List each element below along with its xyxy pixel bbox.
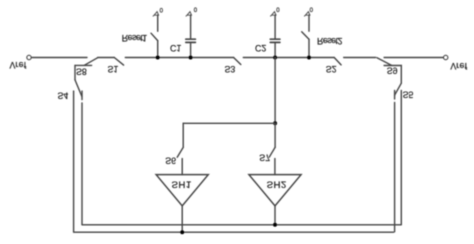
wire branch to S6 — [183, 122, 275, 124]
node junction SH2 output/inner rail — [273, 223, 277, 227]
svg-text:S2: S2 — [326, 64, 337, 74]
node junction SH1 output/outer rail — [180, 230, 184, 234]
switch S9 contact bar — [384, 65, 401, 67]
switch S8 blade — [85, 58, 98, 65]
ground for Reset2 — [304, 12, 310, 16]
node junction C2/wire — [273, 56, 277, 60]
svg-text:S6: S6 — [165, 155, 176, 165]
switch S6 blade — [177, 147, 183, 157]
capacitor C2 upper stub — [274, 15, 276, 39]
svg-text:Reset2: Reset2 — [317, 36, 342, 46]
switch S2 blade — [334, 58, 341, 65]
switch Reset1 upper stub — [157, 15, 159, 31]
wire Vref-L to S8 — [32, 57, 87, 59]
svg-text:0: 0 — [194, 6, 198, 12]
switch S6 lower stub — [181, 159, 183, 175]
node junction Reset2/wire — [307, 56, 311, 60]
switch S7 blade — [269, 147, 275, 157]
svg-text:S5: S5 — [403, 89, 414, 99]
node Vref left terminal — [27, 55, 31, 59]
wire SH2 output to inner rail — [274, 206, 276, 225]
wire SH2 feedback riser left (inner), with contact gap — [81, 91, 83, 224]
node branch junction — [273, 121, 277, 125]
svg-text:S3: S3 — [225, 64, 236, 74]
svg-text:S8: S8 — [76, 67, 87, 77]
svg-text:0: 0 — [310, 6, 314, 12]
wire SH1 feedback riser right (outer), with contact gap — [394, 91, 396, 232]
svg-text:C2: C2 — [255, 43, 266, 53]
switch S7 upper stub — [274, 123, 276, 147]
switch S3 blade — [234, 58, 241, 65]
wire S1 to S3 (through Reset1 and C1 junctions) — [125, 57, 233, 59]
svg-text:S1: S1 — [108, 64, 119, 74]
switch S6 upper stub — [182, 123, 184, 147]
svg-text:S7: S7 — [259, 153, 270, 163]
wire SH2 feedback riser right (inner) — [400, 91, 402, 225]
node junction C1/wire — [189, 56, 193, 60]
capacitor C2 plates — [270, 39, 280, 42]
capacitor C1 plates — [186, 39, 196, 42]
switch S4 blade — [75, 80, 82, 97]
node junction Reset1/wire — [156, 56, 160, 60]
ground for Reset1 — [153, 12, 159, 16]
svg-text:SH2: SH2 — [267, 179, 287, 190]
wire SH1 feedback riser left (outer) — [73, 91, 75, 232]
wire inner feedback rail (SH2 output) — [82, 224, 401, 226]
switch S7 lower stub — [274, 159, 276, 175]
svg-text:Vref: Vref — [450, 61, 467, 71]
svg-text:SH1: SH1 — [172, 179, 192, 190]
wire S8 to S1 — [98, 57, 115, 59]
wire S9 to Vref right — [384, 57, 443, 59]
ground for C1 — [186, 12, 192, 16]
node Vref right terminal — [444, 55, 448, 59]
wire SH1 output to outer rail — [181, 206, 183, 232]
capacitor C2 lower stub — [274, 42, 276, 57]
wire outer feedback rail (SH1 output) — [74, 231, 394, 233]
svg-text:Vref: Vref — [10, 60, 27, 70]
op-amp SH2 triangle — [249, 175, 301, 206]
switch Reset2 lower stub — [308, 39, 310, 57]
capacitor C1 lower stub — [190, 42, 192, 57]
svg-text:C1: C1 — [170, 43, 181, 53]
switch S8 contact bar — [75, 64, 92, 66]
switch Reset2 blade — [302, 32, 309, 39]
svg-text:S9: S9 — [387, 65, 398, 75]
switch S4 upper stub — [74, 65, 76, 80]
svg-text:0: 0 — [160, 6, 164, 12]
capacitor C1 upper stub — [190, 15, 192, 39]
svg-text:S4: S4 — [58, 91, 69, 101]
svg-text:Reset1: Reset1 — [122, 33, 147, 43]
switch S9 blade — [377, 58, 391, 65]
switch Reset1 lower stub — [157, 41, 159, 58]
op-amp SH1 triangle — [156, 175, 208, 206]
wire S3 to S2 (through C2 and Reset2 junctions) — [243, 57, 334, 59]
switch Reset2 upper stub — [308, 15, 310, 31]
switch S5 upper stub — [400, 66, 402, 84]
switch S1 blade — [114, 58, 123, 66]
switch S5 blade — [395, 83, 402, 95]
ground for C2 — [271, 12, 277, 16]
wire C2 junction down to branch node — [274, 58, 276, 124]
svg-text:0: 0 — [276, 6, 280, 12]
switch Reset1 blade — [151, 33, 158, 40]
wire S2 to S9 — [344, 57, 376, 59]
